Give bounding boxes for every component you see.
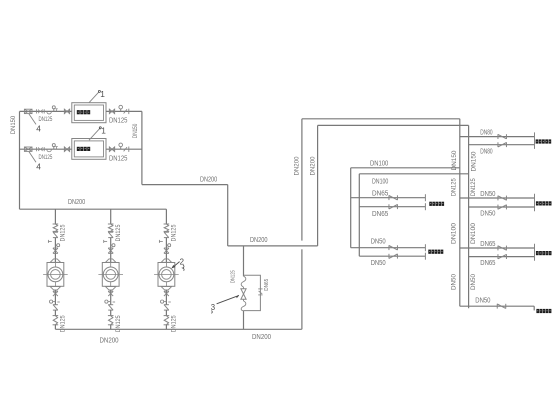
wire DN65 branch lower	[359, 206, 425, 208]
wire DN65 branch upper	[351, 197, 426, 199]
wire DN200 to plant	[142, 184, 228, 186]
wire DN200 riser 1	[301, 249, 303, 329]
svg-text:DN50: DN50	[371, 258, 386, 267]
butterfly valve pump 1 top	[53, 231, 58, 233]
union branch a	[47, 111, 52, 114]
gauge pump 3 top	[159, 240, 162, 242]
pump P2 body	[102, 263, 119, 287]
flex joint branch a	[37, 109, 45, 113]
svg-text:DN50: DN50	[470, 274, 477, 290]
wire pump 3 suction drop	[165, 209, 167, 224]
flex connector pump 2 top	[108, 223, 114, 225]
wire DN50 bottom branch	[460, 305, 534, 307]
wire pump 2 discharge	[110, 290, 112, 305]
terminal label DN80 pair	[536, 139, 539, 143]
svg-text:DN125: DN125	[470, 178, 477, 196]
gauge pump 1 top	[48, 240, 51, 242]
wire pump 3 discharge	[165, 290, 167, 305]
gauge pump 1 bottom	[53, 301, 56, 303]
gate valve branch b	[64, 147, 67, 151]
flex connector pump 3 top	[164, 223, 170, 225]
wire HX branch b	[20, 148, 72, 150]
terminal tick DN50 pair	[534, 194, 536, 211]
wire HX branch a	[20, 110, 72, 112]
svg-text:DN50: DN50	[480, 189, 495, 198]
svg-text:DN125: DN125	[39, 154, 53, 161]
terminal ticks DN65 pair	[424, 194, 426, 201]
reducer pump 3 inlet	[161, 259, 171, 262]
svg-text:DN150: DN150	[470, 151, 477, 171]
wire pump 1 suction drop	[54, 209, 56, 224]
wire DN65 floor branch upper y248.0	[460, 247, 535, 249]
svg-text:DN100: DN100	[470, 223, 477, 244]
terminal tick DN80 pair	[534, 132, 536, 149]
gauge outlet b	[120, 147, 122, 150]
svg-text:DN50: DN50	[480, 209, 495, 218]
wire pump 2 mid	[110, 238, 112, 263]
terminal label DN50 pair	[428, 250, 431, 254]
svg-text:DN50: DN50	[451, 274, 458, 290]
wire DN200 riser 2	[317, 125, 319, 245]
svg-text:DN100: DN100	[451, 223, 458, 244]
svg-text:DN200: DN200	[252, 332, 271, 341]
valve DN65 upper	[388, 195, 390, 200]
svg-text:DN200: DN200	[250, 235, 268, 244]
wire pump 3 to header	[165, 310, 167, 316]
reducer pump 2 outlet	[106, 287, 116, 290]
strainer on branch a	[24, 109, 32, 113]
svg-text:DN200: DN200	[310, 156, 317, 175]
svg-text:DN125: DN125	[171, 224, 178, 241]
terminal label DN65 pair	[429, 202, 432, 206]
tick outlet b	[128, 147, 130, 152]
flex connector pump 3 bottom	[164, 315, 170, 317]
wire DN150 collector riser	[141, 111, 143, 184]
valve DN50 upper	[388, 245, 390, 250]
reducer pump 3 outlet	[161, 287, 171, 290]
svg-text:DN125: DN125	[231, 270, 237, 283]
svg-text:DN150: DN150	[451, 150, 458, 170]
svg-text:DN200: DN200	[100, 335, 119, 344]
check valve pump 1 bottom	[53, 290, 58, 292]
svg-text:1: 1	[101, 126, 106, 136]
gauge branch b	[53, 147, 55, 150]
valve DN50 lower	[388, 254, 390, 259]
flex connector pump 1 bottom	[53, 315, 59, 317]
wire bypass riser	[243, 246, 245, 276]
wire DN50 floor branch upper y198.0	[460, 197, 535, 199]
svg-text:DN65: DN65	[480, 258, 495, 267]
pump P3 body	[158, 263, 175, 287]
svg-text:DN125: DN125	[60, 224, 67, 241]
check valve pump 2 top	[108, 247, 113, 249]
wire DN65 floor branch lower y256.6	[469, 256, 535, 258]
wire DN50 floor branch lower y207.0	[469, 206, 535, 208]
svg-text:DN150: DN150	[10, 116, 17, 135]
svg-text:DN65: DN65	[480, 239, 495, 248]
terminal ticks DN50 pair	[424, 244, 426, 251]
wire DN80 floor branch upper y136.6	[460, 136, 535, 138]
svg-text:DN200: DN200	[68, 197, 85, 206]
flex connector pump 1 top	[53, 223, 59, 225]
butterfly valve pump 1 bottom	[53, 304, 58, 306]
gate valve outlet b	[109, 147, 112, 151]
gauge outlet a	[120, 109, 122, 112]
terminal label DN50 bottom	[536, 309, 539, 313]
heat exchanger U2	[72, 139, 106, 160]
pressure bypass valve	[241, 289, 246, 294]
wire pump 3 mid	[165, 238, 167, 263]
reducer pump 1 inlet	[50, 259, 60, 262]
gauge branch a	[53, 109, 55, 112]
wire DN50 branch upper	[351, 247, 426, 249]
wire DN100 outer supply	[351, 167, 460, 169]
wire DN200 pump discharge header	[55, 328, 301, 330]
wire DN200 return main	[228, 245, 318, 247]
svg-text:DN65: DN65	[372, 189, 388, 198]
check valve pump 3 top	[164, 247, 169, 249]
svg-text:DN80: DN80	[480, 127, 492, 136]
terminal label DN65 pair	[536, 251, 539, 255]
butterfly valve pump 2 top	[108, 231, 113, 233]
butterfly valve pump 3 bottom	[164, 304, 169, 306]
wire pump 2 to header	[110, 310, 112, 316]
svg-text:1: 1	[100, 89, 105, 99]
wire DN200 pump suction header	[20, 208, 167, 210]
svg-text:DN80: DN80	[480, 146, 492, 155]
wire down to return main	[227, 185, 229, 246]
reducer pump 1 outlet	[50, 287, 60, 290]
wire DN100 inner supply	[359, 173, 468, 175]
valve bypass loop	[258, 288, 262, 290]
wire bypass loop	[244, 275, 261, 310]
butterfly valve pump 3 top	[164, 231, 169, 233]
tick outlet a	[128, 109, 130, 114]
butterfly valve pump 2 bottom	[108, 304, 113, 306]
wire HX outlet a	[106, 110, 142, 112]
svg-text:DN100: DN100	[370, 158, 388, 167]
header distributor bar	[468, 125, 470, 308]
union outlet a	[124, 109, 127, 113]
terminal label DN50 pair	[536, 201, 539, 205]
wire pump 1 discharge	[54, 290, 56, 305]
flex connector pump 2 bottom	[108, 315, 114, 317]
wire pump 1 mid	[54, 238, 56, 263]
svg-text:DN100: DN100	[372, 177, 388, 186]
heat exchanger U1	[72, 103, 106, 123]
gate valve branch a	[64, 109, 67, 113]
svg-text:DN125: DN125	[451, 178, 458, 196]
gauge pump 2 top	[104, 240, 107, 242]
wire DN50 branch lower	[359, 255, 425, 257]
gate valve outlet a	[109, 109, 112, 113]
svg-text:DN125: DN125	[39, 116, 53, 123]
svg-text:DN200: DN200	[293, 156, 300, 175]
flex bypass bottom	[241, 301, 246, 311]
svg-text:DN150: DN150	[132, 123, 139, 138]
gauge pump 3 bottom	[164, 301, 167, 303]
svg-text:DN200: DN200	[200, 175, 217, 184]
union branch b	[47, 149, 52, 152]
terminal tick DN65 pair	[534, 244, 536, 261]
header collector bar	[459, 119, 461, 306]
pump P1 body	[47, 263, 64, 287]
svg-text:DN65: DN65	[372, 209, 388, 218]
leader callout 4 branch a	[29, 114, 36, 124]
check valve pump 3 bottom	[164, 290, 169, 292]
callout 1 for U1	[89, 92, 99, 103]
wire DN150 supply riser left	[19, 111, 21, 209]
svg-text:4: 4	[36, 162, 41, 172]
union outlet b	[124, 147, 127, 151]
check valve pump 2 bottom	[108, 290, 113, 292]
svg-text:4: 4	[36, 124, 41, 134]
svg-text:DN125: DN125	[109, 116, 127, 125]
svg-text:DN125: DN125	[115, 224, 122, 241]
check valve pump 1 top	[53, 247, 58, 249]
valve DN65 lower	[388, 204, 390, 209]
strainer on branch b	[24, 147, 32, 151]
svg-text:DN50: DN50	[371, 237, 386, 246]
flex joint branch b	[37, 147, 45, 151]
svg-text:DN125: DN125	[109, 154, 127, 163]
svg-text:DN65: DN65	[264, 279, 270, 291]
callout 1 for U2	[89, 128, 100, 140]
wire pump 2 suction drop	[110, 209, 112, 224]
wire DN80 floor branch lower y144.7	[469, 144, 535, 146]
gauge pump 2 bottom	[108, 301, 111, 303]
callout 3 leader	[217, 296, 237, 304]
callout 2 leader	[172, 262, 179, 268]
flex bypass top	[241, 276, 246, 287]
reducer pump 2 inlet	[106, 259, 116, 262]
leader callout 4 branch b	[29, 152, 36, 162]
wire HX outlet b	[106, 148, 142, 150]
wire pump 1 to header	[54, 310, 56, 316]
svg-text:DN50: DN50	[475, 296, 490, 305]
